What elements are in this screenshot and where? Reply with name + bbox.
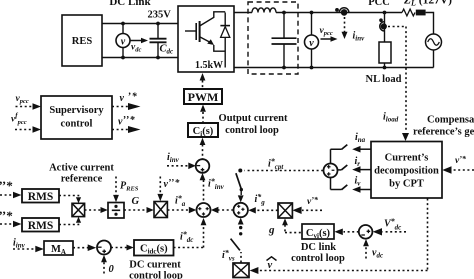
svg-text:G: G (132, 196, 140, 207)
wire ir branch (360, 169, 372, 171)
node Cdc bottom (156, 56, 160, 60)
multiplier X2 (154, 202, 167, 218)
voltmeter V1 vdc (116, 34, 130, 48)
block RES (62, 15, 102, 66)
wire vpcc meter branch (311, 13, 313, 68)
arrowhead iv (352, 186, 360, 193)
svg-text:v: v (309, 38, 314, 49)
block supervisory control (41, 96, 112, 139)
switch iv (342, 185, 348, 190)
arrowhead v1star into xbox3 (292, 207, 301, 214)
node Cf top (282, 11, 286, 15)
resistor ZL zigzag (402, 9, 415, 16)
node dc bottom left (121, 56, 125, 60)
wire v2star into xbox2 (159, 177, 161, 195)
svg-text:control: control (61, 119, 93, 130)
arrow vpcc (321, 38, 332, 40)
wire vdc meter branch (122, 24, 124, 58)
arrowhead vdc into sum4 (363, 239, 369, 246)
arrowhead istar g into sum3 (248, 207, 256, 213)
arrowhead ir (352, 166, 360, 173)
wire iinv stub to sum1 (167, 165, 189, 167)
arrowhead v1star into cpt (442, 166, 451, 173)
svg-text:control loop: control loop (291, 253, 345, 264)
wire iinv into MA (13, 248, 36, 250)
switch icpt blade (238, 169, 242, 173)
wire div to xbox2 G (124, 209, 147, 211)
svg-text:PWM: PWM (188, 90, 219, 104)
wire Pres into div (115, 177, 117, 196)
svg-text:reference’s generator: reference’s generator (413, 126, 474, 137)
arrow vdc (131, 40, 143, 42)
wire ac top (276, 12, 402, 14)
wire pwm to inverter (202, 81, 204, 90)
wire vhat from cpt (260, 199, 428, 271)
svg-text:DC Link: DC Link (109, 0, 151, 8)
wire sum1 to ci (202, 145, 204, 159)
svg-text:decomposition: decomposition (374, 165, 439, 176)
wire ina branch (360, 148, 372, 150)
arrowhead Vstardc into sum4 (373, 228, 382, 235)
multiplier X1 (72, 203, 85, 216)
arrowhead rms2 to xbox1 (76, 217, 81, 223)
svg-text:control loop: control loop (129, 271, 183, 279)
resistor NL load (379, 42, 391, 63)
svg-text:Active current: Active current (49, 162, 114, 173)
node vpcc bottom (310, 66, 314, 70)
current sensor iload (380, 22, 385, 31)
svg-text:RMS: RMS (28, 191, 54, 203)
arrow iinv measurement (344, 17, 346, 32)
svg-text:0: 0 (109, 264, 115, 275)
svg-text:ZL (127V): ZL (127V) (403, 0, 452, 8)
svg-text:’’*: ’’* (0, 178, 13, 193)
arrowhead rms2 in (13, 221, 22, 228)
inductor L1 (252, 8, 276, 13)
svg-text:v ’*: v ’* (120, 92, 138, 105)
svg-text:v: v (121, 36, 126, 47)
arrowhead xbox1 to div (101, 207, 108, 213)
arrowhead g into xbox3 (282, 218, 288, 225)
block PWM (184, 89, 222, 104)
block CPT decomposition (371, 142, 442, 199)
capacitor Cf branch (283, 13, 285, 38)
wire v2star out (112, 129, 129, 131)
svg-text:PCC: PCC (368, 0, 390, 8)
arrowhead zero into sum6 (101, 255, 107, 262)
arrowhead sum3 to sum2 (211, 207, 219, 213)
node vpcc top (310, 11, 314, 15)
arrowhead into ci (200, 138, 206, 145)
wire ci to pwm (202, 112, 204, 123)
wire vpcc into supervisory (16, 106, 34, 108)
wire istar g arrow (256, 209, 278, 211)
block Ci(s) (188, 123, 218, 137)
wire rms2 input (0, 223, 14, 225)
arrowhead Pres into div (113, 195, 119, 202)
wire xbox4 up to switch (240, 252, 242, 263)
arrowhead rms1 in (13, 192, 22, 199)
switch ina (342, 145, 348, 150)
arrowhead icpt switch down into sum3 (238, 195, 244, 202)
wire xbox2 to sum2 (168, 209, 190, 211)
svg-text:RES: RES (72, 36, 93, 47)
wire sum2 to sum1 (203, 180, 205, 203)
summing junction S3 (234, 203, 248, 217)
switch ivs blade (239, 226, 242, 229)
node nl bottom (383, 66, 387, 70)
wire vfpcc into supervisory (15, 129, 34, 131)
summing junction S4 (359, 225, 373, 239)
switch ir (342, 165, 348, 170)
node Cf bottom (282, 66, 286, 70)
node Cdc top (156, 22, 160, 26)
wire sum6 to cidc (111, 247, 127, 249)
svg-text:RMS: RMS (28, 220, 54, 232)
wire g from cvi (285, 225, 302, 233)
multiplier X4 vhat (233, 263, 249, 278)
svg-text:v’’*: v’’* (118, 115, 136, 128)
arrowhead pwm to inverter (200, 73, 206, 81)
svg-text:Supervisory: Supervisory (49, 105, 104, 116)
source G1 grid (426, 34, 442, 50)
wire dc bus top (102, 23, 178, 25)
inductor ZL block (416, 10, 426, 16)
voltmeter V2 vpcc (305, 35, 319, 49)
arrowhead vhat into xbox4 (250, 267, 259, 274)
wire nl load branch (384, 13, 386, 43)
node pcc (383, 11, 387, 15)
svg-text:Compensated: Compensated (427, 115, 474, 126)
svg-text:Current’s: Current’s (385, 152, 429, 163)
wire icpt from sum5 (245, 170, 324, 172)
wire iv branch (360, 189, 372, 191)
wire dc bus bottom (102, 57, 178, 59)
arrowhead vfpcc in (33, 126, 42, 133)
arrowhead cvi in (334, 229, 342, 236)
svg-text:reference: reference (61, 174, 103, 185)
wire v1star out (112, 106, 129, 108)
block MA (44, 241, 73, 255)
arrowhead vpcc in (33, 103, 42, 110)
wire xbox1 to div (85, 209, 101, 211)
block Cvi(s) (302, 224, 334, 239)
arrowhead v2star out (128, 126, 141, 133)
wire Vstardc into sum4 (383, 231, 407, 233)
transistor Q1 igbt (185, 30, 196, 32)
arrowhead sum6 to cidc (127, 245, 134, 251)
svg-text:Ci(s): Ci(s) (193, 126, 214, 138)
svg-text:DC link: DC link (301, 242, 336, 253)
wire to grid source (426, 13, 434, 35)
arrowhead xbox2 to sum2 (189, 207, 197, 213)
wire v1star into cpt (452, 169, 474, 171)
wire iload tap (388, 27, 406, 132)
wire ac bottom (234, 67, 434, 69)
wire MA to sum6 (73, 247, 89, 249)
wire sum3 to sum2 (218, 209, 233, 211)
svg-text:1.5kW: 1.5kW (195, 60, 223, 71)
arrowhead v1star out (128, 103, 141, 110)
svg-text:by CPT: by CPT (389, 178, 424, 189)
current sensor iinv on pcc wire (339, 8, 349, 13)
svg-text:v: v (268, 260, 273, 271)
arrowhead v2star into xbox2 (157, 194, 163, 201)
capacitor Cdc (157, 24, 159, 39)
arrowhead into pwm (200, 105, 206, 112)
wire sum4 to cvi (344, 231, 359, 233)
wire rms1 input (0, 194, 14, 196)
block RMS2 (22, 218, 59, 232)
svg-text:control loop: control loop (225, 125, 279, 136)
svg-text:v’’*: v’’* (164, 178, 180, 191)
wire rms2 to xbox1 (59, 223, 79, 225)
svg-text:g: g (268, 224, 275, 236)
summing junction S2 (197, 203, 211, 217)
svg-text:Cvi(s): Cvi(s) (306, 228, 331, 240)
wire rms1 to xbox1 (59, 196, 79, 198)
wire zero into sum6 (103, 262, 105, 274)
svg-text:DC current: DC current (129, 259, 181, 270)
summing junction S6 (97, 241, 111, 255)
inverter U1 box 1.5kW (178, 6, 234, 72)
arrowhead ivs into sum3 (238, 218, 244, 225)
svg-text:Output current: Output current (219, 113, 288, 124)
divider D1 (108, 203, 124, 219)
summing junction S1 (196, 159, 210, 173)
arrowhead MA to sum6 (88, 244, 97, 251)
block RMS1 (22, 189, 59, 203)
arrowhead div to xbox2 (147, 207, 154, 213)
arrowhead sum2 into sum1 (200, 173, 206, 180)
block Cidc(s) (134, 240, 174, 256)
LC filter dashed box (248, 2, 298, 74)
summing junction S5 (324, 164, 338, 178)
svg-text:’’*: ’’* (0, 208, 13, 223)
arrowhead idc into sum2 (201, 218, 207, 225)
diode D1 freewheel (224, 13, 226, 26)
arrowhead ina (352, 146, 360, 153)
svg-text:235V: 235V (148, 10, 172, 21)
arrowhead iload into cpt (402, 133, 409, 141)
arrowhead iinv into sum1 (188, 163, 196, 170)
arrowhead iinv into MA (35, 246, 44, 253)
multiplier X3 (278, 203, 292, 218)
wire cidc to sum2 idc (174, 226, 204, 248)
svg-text:NL load: NL load (366, 74, 402, 85)
wire vdc into sum4 (365, 247, 367, 259)
wire v1star into xbox3 (302, 209, 322, 211)
arrowhead rms1 to xbox1 (76, 197, 81, 203)
wire inverter to inductor (234, 12, 252, 14)
node dc top left (121, 22, 125, 26)
